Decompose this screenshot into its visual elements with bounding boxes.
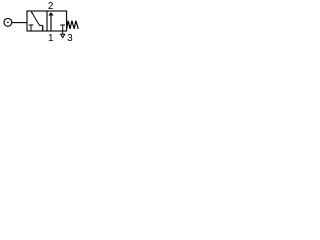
svg-text:3: 3 (67, 33, 73, 41)
right square blocked port T bar (60, 24, 65, 26)
svg-text:2: 2 (48, 1, 54, 12)
divider between squares (46, 11, 48, 31)
return spring (67, 21, 79, 29)
left square blocked port T stem (30, 25, 32, 31)
lever wire (12, 22, 27, 24)
roller wheel circle (4, 18, 12, 26)
left square flow arrowhead at top (31, 12, 33, 14)
right square flow arrowhead (48, 12, 53, 15)
valve body outline (27, 11, 67, 31)
right square flow path 1 to 2 (50, 14, 52, 32)
roller axle dot (7, 22, 9, 24)
left square blocked port T bar (29, 24, 34, 26)
exhaust triangle (61, 34, 65, 37)
svg-text:1: 1 (48, 33, 54, 41)
left square flow path 2 to 3 (31, 12, 42, 26)
left square flow path vertical leg (42, 25, 44, 31)
exhaust port 3 line (62, 31, 64, 34)
right square blocked port T stem (62, 25, 64, 31)
